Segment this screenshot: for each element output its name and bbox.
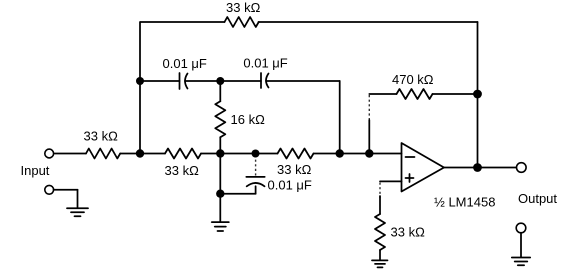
svg-text:33 kΩ: 33 kΩ xyxy=(391,225,426,240)
svg-text:Output: Output xyxy=(518,191,557,206)
svg-text:½ LM1458: ½ LM1458 xyxy=(434,195,495,210)
svg-text:16 kΩ: 16 kΩ xyxy=(231,112,266,127)
svg-text:470 kΩ: 470 kΩ xyxy=(392,72,434,87)
svg-text:33 kΩ: 33 kΩ xyxy=(165,163,200,178)
svg-text:33 kΩ: 33 kΩ xyxy=(84,129,119,144)
svg-text:33 kΩ: 33 kΩ xyxy=(226,0,261,15)
svg-text:0.01 μF: 0.01 μF xyxy=(163,56,207,71)
svg-text:Input: Input xyxy=(21,163,50,178)
svg-text:0.01 μF: 0.01 μF xyxy=(243,56,287,71)
svg-text:0.01 μF: 0.01 μF xyxy=(268,178,312,193)
svg-text:33 kΩ: 33 kΩ xyxy=(277,162,312,177)
